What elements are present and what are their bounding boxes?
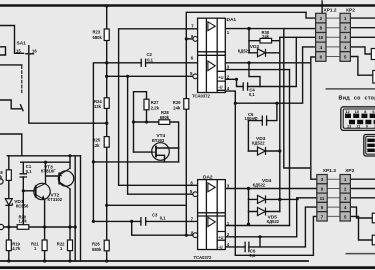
wire inner frame corner into XP1.2 box2 bbox=[306, 12, 316, 18]
wire SA1 section2 input bbox=[0, 100, 21, 109]
wire DA2 pin4 C6 row to box5 bbox=[225, 207, 316, 247]
wire bottom page border bbox=[0, 266, 375, 269]
wire XP2 bottom row4 lead to terminal bbox=[350, 207, 372, 218]
connector pin numbers bbox=[318, 16, 347, 219]
svg-text:10: 10 bbox=[355, 110, 359, 114]
wire feedback node to DA1 pin5 bbox=[107, 75, 193, 77]
wire XP2 top right leads rows 1-3 bbox=[350, 18, 375, 37]
wire box6 vertical to box3 bbox=[311, 57, 317, 179]
wire VT3 emitter up bbox=[69, 156, 71, 169]
svg-text:1,0k: 1,0k bbox=[19, 219, 28, 224]
wire SA1 section3 input bbox=[0, 134, 22, 156]
pin 5 bubble DA1 bbox=[193, 74, 198, 79]
wire C5 branch bbox=[248, 103, 277, 120]
svg-text:680k: 680k bbox=[93, 35, 103, 40]
connector XP1.2 pin 2 bbox=[316, 13, 326, 23]
wire VT4 gate bbox=[134, 151, 153, 153]
switch SA1 lever bbox=[29, 46, 107, 124]
wire box8 net down to box3 bbox=[284, 29, 311, 168]
wire XP2 top row4 lead to terminal bbox=[350, 47, 371, 54]
resistor R30 bbox=[260, 38, 272, 43]
connector XP1.3 pin 9 bbox=[317, 184, 327, 193]
resistor R20 bbox=[17, 225, 29, 230]
wire chain node to bus y205.3 bbox=[107, 204, 187, 206]
wire -U rail y103.2 to box4 bbox=[235, 47, 316, 103]
wire R20 row bbox=[2, 226, 75, 228]
resistor R22 bbox=[68, 240, 73, 251]
svg-text:0,1: 0,1 bbox=[249, 92, 255, 97]
svg-text:ТСА0372: ТСА0372 bbox=[194, 255, 212, 260]
wire VT4 drain bbox=[156, 147, 179, 149]
svg-text:24k: 24k bbox=[173, 105, 181, 110]
diode VD4 bbox=[258, 195, 266, 203]
svg-text:C3: C3 bbox=[152, 212, 158, 217]
connector XP1.2 pin 8 bbox=[316, 23, 326, 33]
svg-text:0,1: 0,1 bbox=[160, 215, 166, 220]
svg-text:R24: R24 bbox=[94, 99, 102, 104]
switch SA1 section2 tick bbox=[21, 105, 24, 111]
connector XP1.2 pin 6 bbox=[316, 52, 326, 62]
wire VT2 base bbox=[23, 190, 35, 192]
wire amp inner rail bbox=[21, 161, 70, 163]
wire VT4 source bbox=[156, 155, 165, 162]
wire top border rail bbox=[0, 4, 375, 6]
terminal box top A bbox=[371, 49, 375, 60]
connector face view side bbox=[364, 135, 375, 157]
wire C6 right riser bbox=[259, 237, 261, 247]
connector XP2 top pin 2 bbox=[340, 23, 350, 33]
wire left edge bracket bbox=[0, 47, 6, 55]
svg-text:11: 11 bbox=[320, 196, 325, 201]
connector XP2 bottom pin 4 bbox=[340, 202, 350, 211]
connector XP2 bottom pin 5 bbox=[340, 212, 350, 221]
svg-text:R25: R25 bbox=[93, 138, 101, 143]
wire VT3 collector down bbox=[69, 189, 71, 261]
wire DA1 pin7 net bbox=[119, 29, 198, 186]
wire DA2 pin3 to XP1.3 box9 bbox=[225, 188, 316, 190]
wire R29 bus vertical bbox=[186, 12, 306, 235]
svg-text:КС856: КС856 bbox=[16, 204, 29, 209]
diode VD3 bbox=[258, 147, 266, 155]
wire XP2 bottom row5 lead to terminal bbox=[350, 216, 372, 240]
wire amp block top rail bbox=[7, 155, 80, 157]
connector XP2 top pin 1 bbox=[340, 13, 350, 23]
transistor VT3 bbox=[58, 171, 73, 186]
wire DA1 pin3 bbox=[225, 69, 289, 71]
svg-text:-U: -U bbox=[218, 245, 222, 250]
wire R27 top feed bbox=[134, 92, 147, 152]
wire VD2 R30 left stub bbox=[248, 29, 250, 53]
wire VD4 VD5 left stub bbox=[248, 189, 250, 225]
svg-text:SA1: SA1 bbox=[17, 41, 27, 47]
transistor VT4 bbox=[152, 143, 170, 161]
svg-text:XP1.2: XP1.2 bbox=[324, 7, 337, 13]
wire R27 bottom / R28 row bbox=[134, 122, 179, 162]
wire C5 left to VD3 bbox=[247, 121, 249, 151]
connector XP1.2 pin 10 bbox=[316, 33, 326, 43]
connector XP2 bottom pin 1 bbox=[340, 175, 350, 184]
resistor R29 bbox=[184, 99, 189, 110]
svg-text:12: 12 bbox=[345, 110, 349, 114]
svg-text:11: 11 bbox=[356, 125, 360, 129]
wire VD2-VD3 right chain bbox=[279, 37, 281, 211]
switch SA1 tick contact 16 bbox=[26, 53, 34, 55]
svg-text:R26: R26 bbox=[92, 241, 100, 246]
capacitor C3 bbox=[141, 217, 146, 226]
diode VD2 bbox=[258, 49, 266, 57]
wire amp block right vertical A bbox=[74, 156, 76, 261]
svg-text:12k: 12k bbox=[94, 104, 102, 109]
connector XP2 top pin 3 bbox=[340, 33, 350, 43]
resistor R19 bbox=[6, 240, 11, 251]
capacitor C2 bbox=[141, 59, 145, 67]
svg-text:R23: R23 bbox=[93, 30, 101, 35]
svg-text:КТ816Г: КТ816Г bbox=[41, 169, 56, 174]
svg-text:100нФ: 100нФ bbox=[245, 116, 259, 121]
svg-text:Вид со сторон: Вид со сторон bbox=[339, 96, 375, 102]
wire VD2 row bbox=[249, 52, 280, 54]
svg-text:2,2k: 2,2k bbox=[151, 105, 160, 110]
connector XP2 bottom pin 3 bbox=[340, 193, 350, 202]
wire R30 row bbox=[249, 40, 280, 42]
wire XP1.3 to XP2 row links bottom connector bbox=[327, 179, 340, 216]
wire VD4 row bbox=[249, 198, 280, 200]
svg-text:10: 10 bbox=[318, 35, 323, 40]
wire amp block left chain bbox=[8, 156, 10, 261]
svg-text:DA2: DA2 bbox=[203, 175, 213, 181]
op-amp U DA1 body bbox=[198, 18, 226, 92]
resistor R24 bbox=[104, 98, 109, 109]
svg-text:VD2: VD2 bbox=[250, 44, 260, 50]
resistor R25 bbox=[104, 137, 109, 148]
wire VT2 collector to VT3 base bbox=[46, 162, 60, 183]
svg-text:XP2: XP2 bbox=[345, 168, 354, 174]
node junction dots bbox=[7, 4, 281, 262]
wire DA2 pin1 rail bbox=[225, 225, 289, 227]
resistor R21 bbox=[42, 240, 47, 251]
wire VT2 emitter down bbox=[44, 200, 46, 261]
wire C4 row bbox=[237, 63, 261, 87]
capacitor C5 bbox=[262, 116, 266, 126]
svg-text:XP2: XP2 bbox=[346, 7, 355, 13]
connector face view XP2 bbox=[341, 107, 375, 131]
wire R23-R26 chain vertical bbox=[106, 6, 108, 261]
wire DA2 pin2 to box11 riser bbox=[225, 198, 296, 237]
svg-text:КД522: КД522 bbox=[252, 140, 265, 145]
svg-text:0,1: 0,1 bbox=[147, 57, 153, 62]
transistor VT2 bbox=[34, 183, 50, 199]
connector XP1.3 pin 3 bbox=[317, 175, 327, 184]
svg-text:XP1.3: XP1.3 bbox=[323, 168, 336, 174]
wire divider line top right bbox=[326, 88, 375, 90]
svg-text:+U: +U bbox=[218, 235, 223, 240]
svg-text:6: 6 bbox=[372, 110, 374, 114]
wire C3 drop to DA2 pin8 bbox=[132, 221, 194, 235]
connector XP1.2 pin 4 bbox=[316, 42, 326, 52]
wire VD3 row bbox=[248, 150, 279, 152]
zener VD1 bbox=[5, 199, 12, 206]
wire C3 net bbox=[93, 220, 197, 222]
wire DA1 pin6 stub bbox=[128, 76, 193, 194]
pin 8 bubble DA1 bbox=[193, 37, 198, 42]
svg-text:0,1: 0,1 bbox=[249, 253, 255, 258]
svg-text:12k: 12k bbox=[93, 143, 101, 148]
wire VD4 right to box11 bbox=[280, 198, 317, 200]
wire VD5 row bbox=[249, 211, 280, 213]
wire amp block right vertical B bbox=[80, 156, 82, 261]
connector XP1.3 pin 7 bbox=[317, 212, 327, 221]
wire R30 net to XP1.2 box10 bbox=[280, 36, 316, 38]
resistor R18 bbox=[6, 170, 11, 181]
capacitor C4 bbox=[243, 82, 247, 91]
pin 8 bubble DA2 bbox=[193, 233, 198, 238]
terminal box top B bbox=[373, 71, 375, 84]
wire DA1 pin1 output to XP1.2 box8 bbox=[225, 28, 316, 30]
svg-text:КД522: КД522 bbox=[267, 219, 280, 224]
wire supply rail y62.6 left part bbox=[93, 63, 197, 222]
wire DA1 output2 long vertical bbox=[289, 70, 291, 226]
switch SA1 mechanical dashed link bbox=[21, 66, 23, 94]
wire C1 branch bbox=[22, 162, 24, 227]
pin connector left edge bbox=[0, 224, 4, 229]
wire mid horizontal y161.9 bbox=[93, 161, 178, 163]
svg-text:16: 16 bbox=[32, 49, 37, 54]
connector XP1.3 pin 5 bbox=[317, 202, 327, 211]
wire top stub above XP1.2 bbox=[321, 1, 323, 13]
svg-text:DA1: DA1 bbox=[227, 17, 237, 23]
svg-text:24k: 24k bbox=[262, 34, 270, 39]
wire input stub to SA1 contact 15 bbox=[0, 26, 24, 54]
wire XP2 top row5 lead to terminal bbox=[350, 57, 372, 76]
svg-text:8: 8 bbox=[364, 110, 366, 114]
wire bus x235.3 down bbox=[234, 103, 236, 255]
resistor R28 bbox=[159, 120, 170, 125]
connector XP1.3 pin 11 bbox=[317, 193, 327, 202]
wire XP1.2 to XP2 row links top connector bbox=[326, 18, 340, 56]
terminal box bottom D bbox=[372, 235, 375, 245]
wire XP2 bottom right leads rows 1-3 bbox=[350, 179, 375, 198]
svg-text:0,1: 0,1 bbox=[26, 169, 32, 174]
terminal box bottom C bbox=[372, 213, 375, 223]
wire contact row 2 bbox=[0, 64, 22, 66]
wire supply rail y62.6 right part bbox=[225, 62, 310, 64]
svg-text:15: 15 bbox=[16, 49, 21, 54]
svg-text:C2: C2 bbox=[147, 52, 153, 57]
svg-text:ТСА0372: ТСА0372 bbox=[192, 93, 210, 98]
svg-text:КП303: КП303 bbox=[152, 138, 165, 143]
diode VD5 bbox=[258, 208, 266, 216]
connector XP2 top pin 5 bbox=[340, 52, 350, 62]
svg-text:+U: +U bbox=[218, 75, 223, 80]
pin 5 bubble DA2 bbox=[193, 192, 198, 197]
svg-text:680k: 680k bbox=[92, 247, 102, 252]
svg-text:9: 9 bbox=[366, 125, 368, 129]
wire row7 horizontal bbox=[235, 216, 316, 255]
connector XP2 bottom pin 2 bbox=[340, 184, 350, 193]
svg-text:4,7k: 4,7k bbox=[12, 246, 21, 251]
wire bottom ground rail bbox=[0, 260, 308, 262]
svg-text:-U: -U bbox=[218, 85, 222, 90]
capacitor C6 bbox=[245, 242, 249, 253]
svg-text:КД522: КД522 bbox=[238, 48, 251, 53]
svg-text:КТ3102: КТ3102 bbox=[48, 197, 63, 202]
wire DA1 pin2 bbox=[225, 78, 236, 80]
resistor R26 bbox=[104, 240, 109, 251]
wire DA1 pin8 stub bbox=[186, 38, 194, 40]
resistor R23 bbox=[104, 29, 109, 41]
resistor R27 bbox=[144, 99, 149, 110]
pin connector left edge upper bbox=[0, 179, 3, 184]
connector XP2 top pin 4 bbox=[340, 42, 350, 52]
svg-text:680k: 680k bbox=[160, 115, 170, 120]
wire DA1 pin4 bbox=[225, 91, 235, 103]
svg-text:13: 13 bbox=[347, 125, 351, 129]
capacitor C1 bbox=[20, 174, 28, 177]
svg-text:КД522: КД522 bbox=[253, 182, 266, 187]
wire C4 right to box10 net bbox=[260, 37, 296, 86]
wire divider line bottom right bbox=[346, 253, 375, 255]
op-amp U DA2 body bbox=[198, 180, 226, 250]
